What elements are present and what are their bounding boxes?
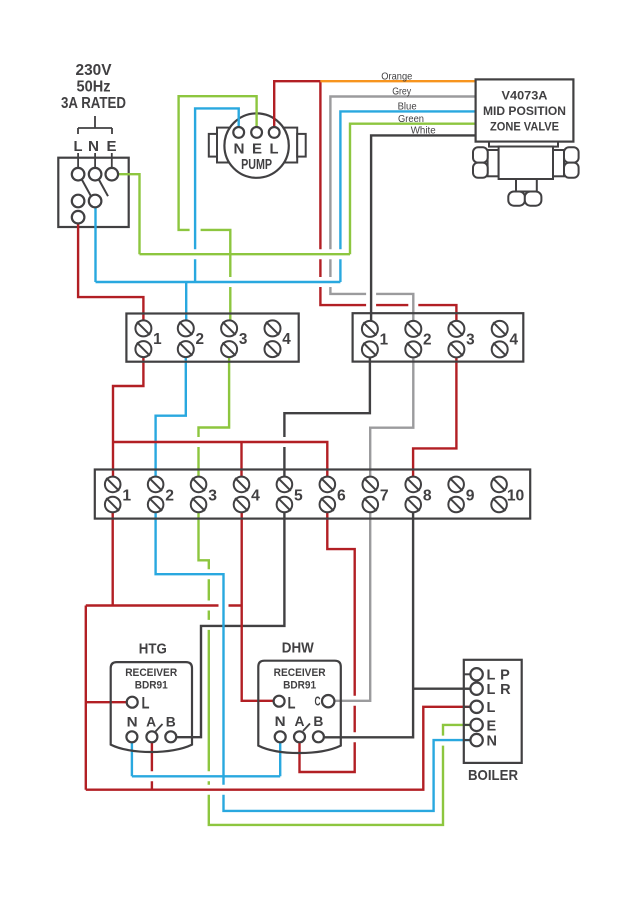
boiler box [464,660,522,763]
connector B terminal 3 screws [448,321,464,358]
pump label [241,156,272,173]
wire: blue neutral from spur N switch [94,201,96,282]
svg-text:5: 5 [294,488,303,505]
DHW terminal C [322,695,334,707]
svg-text:230V: 230V [76,62,113,79]
supply bracket [78,116,112,134]
connector B terminal number 1 [380,332,389,349]
spur terminal row2 right [89,195,102,208]
boiler terminal E [470,719,482,731]
DHW switch lever [303,724,310,732]
strip terminal 6 screws [320,477,336,513]
connector A terminal 1 screws [135,320,151,357]
DHW terminal labels N A B [275,713,324,729]
wire: blue neutral strip terminal 2 to boiler N [156,505,471,811]
wire: blue connector-A terminal 2 down to strip terminal 2 [156,349,186,485]
DHW label [282,640,314,656]
wire: red strip terminal 6 to DHW receiver A [300,505,355,773]
DHW terminal A [294,731,305,742]
wire: blue drop to connector-A terminal 2 [185,282,187,329]
svg-text:E: E [487,718,497,734]
wire: red strip terminal 4 to DHW receiver L [242,505,280,701]
label orange wire [381,70,412,82]
HTG label [139,642,167,658]
HTG receiver BDR91 box [111,662,192,752]
svg-text:6: 6 [337,488,346,505]
svg-text:2: 2 [196,331,205,348]
svg-text:L R: L R [487,682,512,698]
strip terminal number 4 [251,488,260,505]
label grey wire [392,86,412,98]
ticks from L N E labels to spur box [78,153,112,168]
connector A terminal 3 screws [221,320,237,357]
svg-text:2: 2 [423,332,432,349]
svg-text:DHW: DHW [282,640,314,656]
svg-text:L: L [270,141,279,158]
zone valve body [473,142,579,206]
pump terminal E [251,127,262,138]
svg-text:Blue: Blue [398,101,417,113]
wire: red pump L riser to orange junction [274,81,320,132]
wire: grey valve wire to connector-B terminal 2 [330,97,475,329]
boiler terminal L [470,701,482,713]
strip terminal number 2 [165,488,174,505]
wire: black link connector-B terminal1 to strip terminal 5 [284,349,370,484]
wire: grey link connector-B terminal 2 to strip terminal 7 [370,349,413,484]
svg-text:7: 7 [380,488,389,505]
svg-text:E: E [107,138,117,155]
svg-text:ZONE VALVE: ZONE VALVE [490,121,559,133]
strip terminal number 1 [122,488,131,505]
supply rating label 230V 50Hz 3A RATED [61,62,126,112]
svg-text:HTG: HTG [139,642,167,658]
HTG terminal B [165,731,176,742]
HTG terminal L [127,697,138,708]
svg-text:3A RATED: 3A RATED [61,95,126,112]
connector A terminal 4 screws [265,320,281,357]
wire: green earth from spur E to junction [112,174,140,254]
HTG terminal label L [142,695,150,713]
spur switch blade L [82,180,91,197]
strip terminal 9 screws [448,477,464,513]
connector A terminal 2 screws [178,320,194,357]
pump body circle [224,113,288,177]
DHW terminal N [275,731,286,742]
DHW terminal B [313,731,324,742]
svg-text:4: 4 [282,331,291,348]
main terminal strip (10 way) [95,470,530,519]
boiler terminal E tick [464,724,471,726]
strip terminal number 6 [337,488,346,505]
pump terminal L [269,127,280,138]
svg-text:V4073A: V4073A [502,91,548,103]
boiler terminal label L R [487,682,512,698]
svg-text:MID POSITION: MID POSITION [483,106,566,118]
svg-text:RECEIVER: RECEIVER [125,667,177,679]
boiler terminal L P [470,668,482,680]
strip terminal 1 screws [105,477,121,513]
strip terminal 2 screws [148,477,164,513]
wire: orange valve wire [320,80,475,82]
svg-text:Green: Green [398,113,424,125]
HTG terminal A [146,731,157,742]
svg-text:L: L [142,695,150,713]
svg-text:3: 3 [466,332,475,349]
connector B terminal 1 screws [362,321,378,358]
boiler terminal N [470,734,482,746]
connector A terminal number 2 [196,331,205,348]
boiler terminal L R [470,683,482,695]
svg-text:E: E [252,141,262,158]
svg-text:BDR91: BDR91 [135,680,168,692]
wire: blue neutral main horizontal [96,281,341,283]
label blue wire [398,101,417,113]
svg-text:BDR91: BDR91 [283,680,316,692]
svg-text:N: N [88,138,99,155]
svg-text:L: L [288,695,296,713]
wire: blue pump N riser [195,108,239,282]
connector A terminal number 3 [239,331,248,348]
DHW terminal label C [315,695,321,709]
svg-text:1: 1 [380,332,389,349]
svg-text:Grey: Grey [392,86,412,98]
strip terminal 5 screws [277,477,293,513]
strip terminal number 7 [380,488,389,505]
spur terminal row2 left [72,195,85,208]
terminal labels L N E [74,138,117,155]
strip terminal 10 screws [491,477,507,513]
DHW receiver BDR91 box [258,661,341,753]
connector block B (4 way) [353,313,524,361]
connector block A (4 way) [126,314,298,362]
strip terminal 4 screws [234,477,250,513]
DHW terminal label L [288,695,296,713]
connector B terminal number 3 [466,332,475,349]
strip terminal 7 screws [362,477,378,513]
wire: blue valve wire riser to zone valve [340,111,475,282]
pump terminal N [233,127,244,138]
wire: red link connector-B terminal 3 to strip terminal 8 [413,349,456,484]
svg-text:9: 9 [466,488,475,505]
svg-text:N: N [487,734,498,750]
svg-text:L: L [74,138,83,155]
wire: green main earth bus horizontal [140,253,351,255]
connector B terminal 2 screws [405,321,421,358]
strip terminal number 5 [294,488,303,505]
boiler terminal label L P [487,668,511,684]
svg-text:4: 4 [509,332,518,349]
wire: red connector-A terminal 1 to strip terminal 1 with live bus [113,349,327,485]
connector A terminal number 4 [282,331,291,348]
HTG terminal labels N A B [127,714,176,730]
wire: red live strip terminal 1 down with bus to terminal 4 riser and HTG L [86,505,242,790]
pump flanges [209,128,306,163]
fused spur switch box [58,158,128,227]
connector A terminal number 1 [153,331,162,348]
svg-text:A: A [295,713,305,729]
svg-text:B: B [166,714,176,730]
zone valve box V4073A [476,79,574,141]
svg-text:2: 2 [165,488,174,505]
HTG terminal N [126,731,137,742]
svg-text:N: N [127,714,138,730]
svg-text:RECEIVER: RECEIVER [274,667,326,679]
strip terminal number 3 [208,488,217,505]
svg-text:C: C [315,695,321,709]
boiler terminal L tick [464,706,471,708]
svg-text:1: 1 [153,331,162,348]
wire: black HTG receiver B to strip terminal 5 [176,505,284,738]
svg-text:8: 8 [423,488,432,505]
svg-text:1: 1 [122,488,131,505]
label green wire [398,113,424,125]
svg-text:3: 3 [239,331,248,348]
svg-text:50Hz: 50Hz [77,79,111,96]
wire: red drop from orange junction to connector-B terminal 3 [320,81,456,329]
connector B terminal 4 screws [492,321,508,358]
boiler terminal label L [487,700,496,716]
strip terminal 3 screws [191,477,207,513]
HTG switch lever [156,724,163,732]
boiler terminal label N [487,734,498,750]
wire: green valve wire riser to zone valve [350,124,476,255]
connector B terminal number 4 [509,332,518,349]
strip terminal number 8 [423,488,432,505]
wire: green pump E earth with jog to connector-A terminal 3 [179,96,257,329]
svg-text:3: 3 [208,488,217,505]
wire: green connector-A terminal 3 down to strip terminal 3 [199,349,230,485]
wire: red live bottom bus to boiler L [86,707,471,790]
svg-text:White: White [411,125,436,137]
svg-text:10: 10 [507,488,525,505]
pump terminal labels N E L [234,141,279,158]
svg-text:B: B [313,713,323,729]
wire: grey strip terminal 7 to DHW receiver C [330,505,370,701]
wire: green earth strip terminal 3 to boiler E [199,505,472,825]
boiler label [468,767,518,784]
svg-text:N: N [234,141,245,158]
svg-text:BOILER: BOILER [468,767,518,784]
boiler terminal label E [487,718,497,734]
spur terminal L top [72,168,85,181]
spur terminal row3 [72,211,85,224]
DHW terminal L [274,696,285,707]
spur terminal N top [89,168,102,181]
svg-text:Orange: Orange [381,70,412,82]
wire: red switched live from spur to connector-A terminal 1 [78,217,143,329]
svg-text:N: N [275,713,286,729]
svg-text:L: L [487,700,496,716]
wire: red HTG receiver A drop to live bus [151,737,153,790]
spur terminal E top [106,168,119,181]
svg-text:PUMP: PUMP [241,156,272,173]
svg-text:4: 4 [251,488,260,505]
strip terminal 8 screws [405,477,421,513]
svg-text:A: A [146,714,156,730]
spur switch blade N [99,180,108,197]
boiler terminal L R tick [464,688,471,690]
wire: white valve wire (black) from zone valve to connector-B terminal 1 [371,135,476,329]
wire: blue neutral bus HTG N to DHW N [132,737,280,777]
boiler terminal L P tick [464,673,471,675]
boiler terminal N tick [464,739,471,741]
connector B terminal number 2 [423,332,432,349]
wire: black strip terminal 8 to DHW receiver B and boiler LR [324,505,471,738]
label white wire [411,125,436,137]
strip terminal number 9 [466,488,475,505]
strip terminal number 10 [507,488,525,505]
